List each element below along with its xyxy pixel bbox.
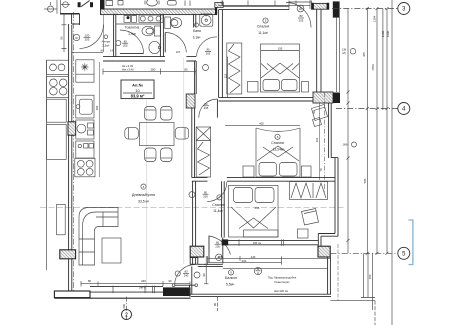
svg-text:90: 90 — [168, 279, 172, 283]
bath washbasin counter — [200, 14, 213, 26]
bedroom1 bed blanket folds — [261, 63, 299, 78]
balcony door tag — [175, 271, 180, 276]
living south wall right block — [163, 287, 191, 296]
toilet shelf black valve dot — [127, 16, 130, 19]
svg-text:195: 195 — [278, 46, 283, 50]
bedroom1 nightstand left — [248, 82, 259, 93]
svg-text:80: 80 — [88, 279, 92, 283]
bedroom1 west wall — [219, 10, 223, 98]
bedroom2 west wall — [192, 108, 195, 178]
kitchen upper cabinet with fridge — [76, 60, 94, 82]
svg-text:205: 205 — [123, 43, 128, 47]
toilet left wall — [114, 14, 116, 57]
black jamb left of bedroom3 window — [222, 239, 229, 245]
svg-text:2: 2 — [125, 313, 128, 319]
bedroom2 nightstand left — [243, 166, 254, 177]
svg-text:83,9 м²: 83,9 м² — [131, 94, 145, 99]
party wall hatched pier at kitchen — [68, 122, 76, 135]
svg-text:80: 80 — [204, 190, 207, 194]
bedroom2/3 divider wall with door opening — [192, 178, 335, 182]
hall hatched block at balcony corner — [190, 246, 204, 257]
party wall hatched pier — [60, 250, 76, 259]
band step connector — [215, 7, 217, 15]
faint axis vertical through hall — [183, 58, 185, 264]
entry room label — [104, 35, 108, 39]
svg-text:Баня: Баня — [193, 29, 201, 33]
balcony parapet — [190, 266, 332, 296]
balcony east wall — [328, 257, 331, 294]
neighbor counters — [47, 99, 67, 122]
svg-text:10: 10 — [135, 88, 140, 93]
toilet shelf circles (washer drums) — [140, 16, 145, 21]
bedroom3 bench — [244, 230, 279, 237]
svg-text:80: 80 — [124, 39, 127, 43]
grid axis 4 — [336, 108, 398, 110]
svg-text:13,54м²: 13,54м² — [273, 147, 286, 151]
dining chairs bottom — [145, 148, 157, 162]
living south window band — [90, 287, 163, 293]
svg-text:70: 70 — [319, 168, 323, 171]
svg-text:205: 205 — [206, 52, 211, 56]
kitchen sink unit — [76, 95, 94, 118]
bath washbasin bowl — [201, 15, 211, 25]
bottom right horizontal line — [330, 300, 375, 302]
neighbor stove — [47, 76, 69, 97]
svg-text:240: 240 — [251, 255, 256, 259]
toilet WC tank — [155, 26, 161, 36]
bottom small dim under balcony door — [217, 297, 219, 311]
right outside dim line segment — [204, 256, 208, 284]
black wall end cap left of band — [100, 0, 105, 10]
balcony inner top edge — [223, 268, 328, 270]
parapet outer line below living windows — [54, 297, 190, 299]
toilet door arc — [120, 30, 144, 54]
svg-text:80: 80 — [299, 14, 303, 18]
facade thin line continuing — [319, 103, 321, 180]
bedroom3 pillows — [234, 188, 253, 203]
neighbor strip fixtures above band — [106, 1, 123, 6]
hatched band upper segment — [215, 2, 223, 7]
svg-text:240: 240 — [141, 279, 146, 283]
balcony exit door arc — [209, 236, 231, 255]
blue revision bracket — [409, 220, 413, 265]
toilet shelf fixtures: boxes — [124, 15, 163, 22]
neighbor kitchen sink counter — [47, 60, 69, 74]
toilet/bath divider wall — [160, 14, 163, 57]
svg-text:300: 300 — [122, 304, 126, 309]
svg-text:1900: 1900 — [386, 30, 390, 37]
top-right hatched pier — [312, 3, 329, 9]
kitchen stove 4 burners — [75, 158, 95, 176]
svg-text:33,5 м²: 33,5 м² — [138, 199, 150, 203]
entry vertical dim line — [62, 15, 67, 53]
balcony door leaf — [175, 284, 196, 286]
svg-text:3,1м²: 3,1м² — [193, 36, 201, 40]
balcony door arc — [175, 265, 196, 286]
bedroom3 side table — [298, 229, 309, 238]
living south dim line — [81, 281, 190, 286]
svg-text:1650: 1650 — [371, 64, 375, 71]
bedroom3 wardrobe with slashes — [290, 182, 328, 200]
svg-text:Спалня: Спалня — [212, 203, 225, 207]
corridor west wall lower — [193, 181, 196, 264]
top-right black corner block — [333, 1, 340, 17]
hall wall stub at bed3 — [222, 238, 224, 264]
bedroom3 blanket folds — [231, 207, 276, 229]
faint section line horizontal — [40, 206, 345, 208]
party wall axis dash-dot line — [72, 12, 74, 298]
coffee table — [102, 238, 121, 263]
toilet door tag — [116, 40, 121, 45]
wall hall to balcony — [198, 264, 223, 266]
svg-text:(пв-т): (пв-т) — [139, 286, 146, 290]
living room label — [141, 184, 146, 189]
svg-text:Тоалетна: Тоалетна — [125, 25, 140, 29]
grid axis 2 bottom — [126, 297, 128, 321]
svg-text:107: 107 — [176, 50, 181, 54]
corridor door to hall arc — [197, 37, 218, 57]
bath room label — [195, 23, 199, 27]
bedroom1 door jambs top — [289, 1, 312, 10]
svg-text:80: 80 — [207, 48, 210, 52]
top hatched party wall band — [101, 9, 217, 15]
svg-text:80: 80 — [185, 270, 188, 274]
entry top wall — [60, 13, 80, 15]
bedroom1 pillows — [263, 80, 280, 91]
svg-text:1600: 1600 — [381, 30, 385, 37]
svg-text:90: 90 — [213, 303, 217, 306]
bedroom3 south window wall — [228, 240, 318, 244]
svg-text:205: 205 — [299, 18, 304, 22]
fridge star symbol — [81, 63, 88, 70]
small jamb box below hatched block — [190, 258, 198, 265]
svg-text:205: 205 — [85, 38, 90, 42]
bedroom2 armchair rotated — [312, 105, 328, 121]
neighbor side edge line — [46, 60, 48, 270]
survey mark circle at entry — [63, 2, 69, 8]
bedroom3 east wall — [318, 158, 338, 247]
bedroom2 nightstand right — [302, 166, 312, 177]
bedroom2 label — [275, 134, 280, 139]
hall dimension line — [103, 69, 196, 75]
svg-text:(И): (И) — [342, 52, 346, 55]
bedroom2 pillows — [259, 163, 277, 177]
entry door tag circle — [73, 34, 79, 40]
svg-text:Нм=120 см: Нм=120 см — [274, 289, 288, 293]
corridor top wall under toilet and bath — [103, 57, 196, 61]
bedroom1 east window double line — [317, 10, 321, 92]
left party wall double line — [69, 24, 72, 291]
bedroom3 west wall — [222, 181, 225, 237]
right vertical boundary line — [391, 0, 393, 325]
bedroom3 window mullions — [239, 239, 284, 245]
faint axis vertical through dining — [146, 100, 148, 292]
corridor door tag — [203, 65, 209, 71]
svg-text:240: 240 — [184, 274, 189, 278]
svg-text:205: 205 — [204, 106, 209, 110]
stairwell wall stubs above entry — [57, 0, 61, 14]
dining table — [140, 123, 175, 146]
apartment number box — [121, 80, 154, 99]
svg-text:1304: 1304 — [373, 15, 377, 22]
bottom right dims — [361, 253, 375, 310]
svg-text:Балкон: Балкон — [225, 276, 237, 280]
bedroom1 top wall double line — [219, 6, 289, 9]
bath WC tank — [165, 17, 171, 29]
right dim column lines — [348, 9, 387, 254]
svg-text:90: 90 — [312, 110, 316, 113]
balcony label — [228, 270, 233, 275]
balcony dim lines — [207, 256, 330, 265]
exterior wall dashed extension right — [337, 244, 339, 301]
bedroom3 entry door arc — [207, 182, 227, 202]
balcony SE hatched corner block — [318, 246, 330, 257]
svg-text:90: 90 — [60, 36, 64, 40]
grid axis 3 — [332, 8, 398, 10]
top band right end ticks — [223, 1, 289, 14]
bedroom3 bed horizontal — [229, 186, 279, 238]
bedroom2 wardrobe with X top — [196, 127, 210, 177]
neighbor tall cabinet — [57, 204, 66, 234]
svg-text:205: 205 — [203, 194, 208, 198]
survey mark circle left — [48, 6, 54, 12]
dining chair left — [125, 128, 139, 140]
bath door arc — [165, 32, 186, 52]
svg-text:180 см: 180 см — [253, 241, 261, 245]
toilet door leaf — [120, 53, 144, 55]
apartment entry door arc — [80, 25, 104, 49]
bedroom3 label — [217, 195, 222, 200]
right facade double line upper — [337, 18, 340, 92]
bedroom2 door arc — [199, 99, 218, 118]
toilet WC bowl — [142, 26, 154, 36]
svg-text:150: 150 — [368, 274, 372, 279]
entry dim extension line — [103, 15, 105, 53]
bath WC bowl — [170, 18, 181, 28]
svg-text:202: 202 — [242, 259, 247, 263]
neighbor entry door frame — [78, 2, 81, 7]
svg-text:505: 505 — [363, 178, 367, 183]
svg-text:Под. Мрамороподобен: Под. Мрамороподобен — [268, 276, 297, 280]
svg-text:11,4м²: 11,4м² — [213, 209, 224, 213]
toilet upper shelf line — [116, 23, 161, 25]
sofa L-shape — [79, 208, 118, 266]
svg-text:402: 402 — [259, 122, 264, 126]
neighbor kitchen counter line top right — [218, 0, 310, 9]
kitchen oven unit — [76, 120, 94, 139]
grid axis 5 — [330, 252, 397, 254]
kitchen counter dim line — [98, 62, 100, 177]
svg-text:90: 90 — [202, 273, 206, 276]
svg-text:80: 80 — [184, 68, 188, 72]
bedroom1 wardrobe — [227, 43, 242, 94]
svg-text:80: 80 — [205, 102, 208, 106]
svg-text:2,2м²: 2,2м² — [102, 44, 109, 48]
dim ticks right columns — [347, 7, 389, 255]
dining chairs top — [145, 107, 157, 121]
bath door leaf — [164, 33, 166, 53]
bedroom1 south wall — [219, 98, 313, 101]
svg-text:205: 205 — [218, 255, 223, 259]
svg-text:Нм.+3,40: Нм.+3,40 — [122, 68, 134, 72]
niche vertical dim — [227, 57, 229, 98]
svg-text:260: 260 — [95, 105, 99, 110]
bedroom1 label — [263, 18, 268, 23]
svg-text:306: 306 — [315, 137, 319, 142]
balcony exit door tag circle — [216, 254, 222, 260]
svg-text:205: 205 — [215, 244, 220, 248]
entry bottom line — [72, 51, 103, 53]
svg-text:365: 365 — [362, 52, 366, 57]
hall hatched pier — [186, 94, 195, 108]
toilet corner sink — [149, 41, 160, 53]
svg-text:Ап.№: Ап.№ — [132, 82, 143, 87]
bedroom2 blanket folds — [257, 146, 299, 161]
bedroom2 door leaf — [216, 99, 218, 118]
balcony exit door leaf — [208, 236, 210, 263]
bedroom3 armchair rotated — [302, 209, 319, 226]
svg-text:495: 495 — [255, 206, 260, 210]
bedroom1 bed — [261, 44, 300, 92]
bedroom2 east window double line — [329, 103, 332, 158]
bedroom2 dim line above bed — [225, 125, 300, 127]
bath partition stub — [194, 14, 196, 28]
bedroom1 door tag circle — [297, 5, 304, 12]
bedroom1 nightstand right — [302, 82, 309, 93]
window mullion ticks — [113, 286, 154, 294]
svg-text:Гранитогрес: Гранитогрес — [274, 280, 290, 284]
dining chair right — [175, 128, 189, 140]
svg-text:280: 280 — [151, 68, 156, 72]
svg-text:80: 80 — [216, 240, 219, 244]
svg-text:Спалня: Спалня — [257, 25, 270, 29]
kitchen cabinet unit — [76, 141, 94, 158]
svg-text:Дневна/Кухня: Дневна/Кухня — [132, 193, 155, 197]
bedroom1 entrance door arc — [286, 2, 312, 28]
hall east wall below corridor — [195, 61, 197, 94]
bedroom3 entry door tag — [189, 192, 195, 198]
living south wall left footing — [54, 291, 90, 298]
svg-text:5,5м²: 5,5м² — [226, 283, 235, 287]
svg-text:1Ф8: 1Ф8 — [343, 144, 348, 147]
bedroom2 bed — [256, 128, 300, 177]
svg-text:11,1м²: 11,1м² — [258, 31, 269, 35]
svg-text:Спалня: Спалня — [271, 141, 284, 145]
axis dash line right side — [323, 92, 325, 192]
mid-right hatched pier — [313, 92, 333, 103]
